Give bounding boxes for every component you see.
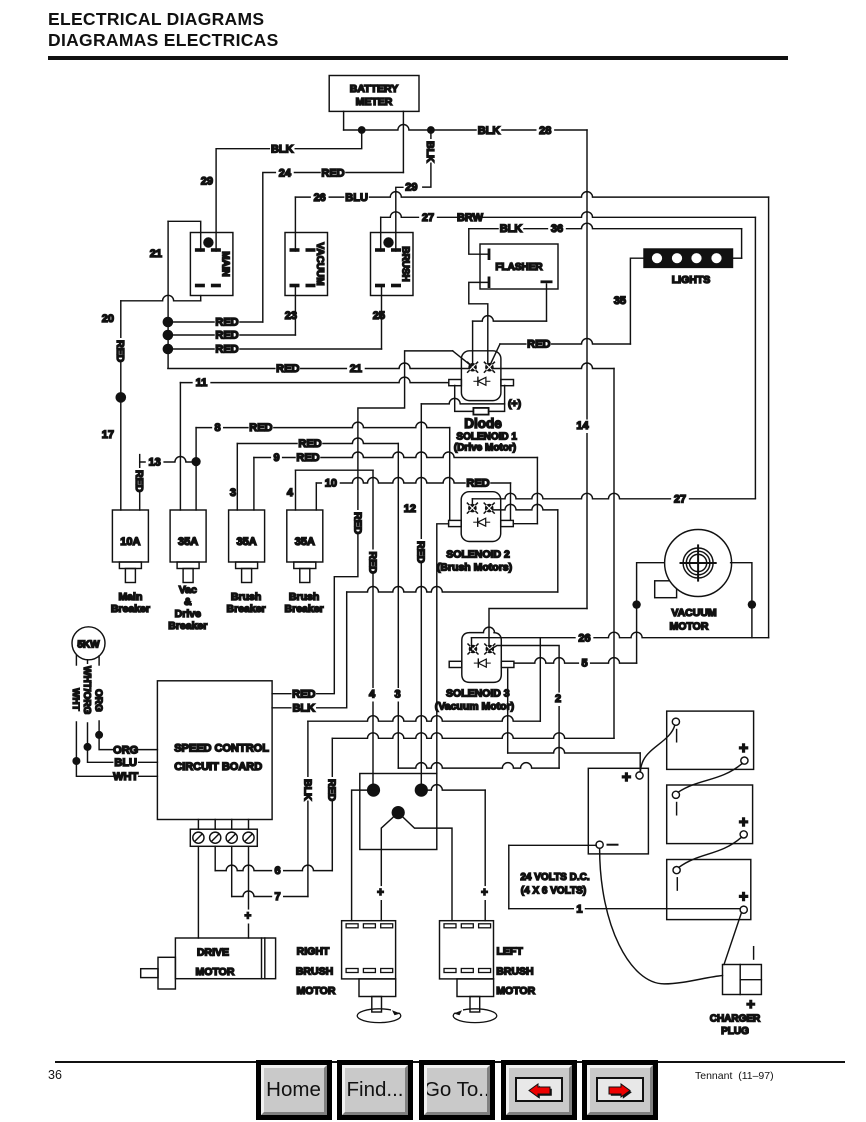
wire RED 21 to solenoid 1 — [168, 363, 469, 369]
wire strip to drive motor plus — [248, 846, 250, 938]
svg-text:27: 27 — [674, 493, 686, 505]
label RED vertical — [325, 777, 338, 801]
label 14 — [574, 420, 592, 433]
label 10 — [322, 477, 340, 490]
svg-text:RED: RED — [415, 541, 427, 564]
svg-text:Main: Main — [118, 591, 142, 603]
battery interconnect curve 3 — [679, 837, 742, 867]
wire diagonal into solenoid 1 left terminal — [453, 351, 472, 366]
svg-text:CIRCUIT BOARD: CIRCUIT BOARD — [174, 761, 262, 773]
svg-text:MOTOR: MOTOR — [670, 621, 709, 633]
label ORG — [113, 744, 137, 757]
wire 29 stub BLK drop — [423, 130, 431, 187]
svg-text:RED: RED — [296, 452, 319, 464]
svg-text:BLU: BLU — [114, 757, 137, 769]
wire 23 RED to VACUUM relay — [168, 334, 296, 336]
svg-text:(Drive Motor): (Drive Motor) — [454, 443, 516, 454]
wire 28 BLK bus — [344, 125, 587, 131]
wire 8 RED — [195, 428, 197, 510]
page number 36 — [48, 1068, 62, 1082]
label 5 — [579, 657, 590, 670]
svg-text:35A: 35A — [295, 536, 315, 548]
svg-text:Diode: Diode — [464, 416, 502, 431]
svg-text:17: 17 — [102, 429, 114, 441]
svg-text:14: 14 — [576, 420, 589, 432]
solenoid U1 drive solenoid — [461, 351, 501, 401]
label WHT/ORG vertical — [80, 664, 93, 711]
label BLK — [270, 143, 294, 156]
label 12 — [400, 503, 418, 516]
svg-text:7: 7 — [275, 891, 281, 903]
svg-text:12: 12 — [404, 503, 416, 515]
svg-text:35: 35 — [614, 295, 626, 307]
svg-text:+: + — [377, 887, 384, 899]
wire 3 jog — [398, 763, 559, 769]
svg-text:5KW: 5KW — [77, 640, 100, 651]
svg-text:BATTERY: BATTERY — [350, 83, 398, 95]
battery interconnect curve 1 — [641, 725, 675, 771]
label 2 — [553, 693, 564, 706]
title ELECTRICAL DIAGRAMS — [48, 9, 279, 51]
svg-text:WHT: WHT — [70, 688, 81, 711]
label 26 — [311, 191, 329, 204]
button back arrow — [501, 1060, 577, 1120]
svg-text:4: 4 — [369, 689, 376, 701]
svg-text:Drive: Drive — [175, 608, 201, 620]
svg-text:13: 13 — [148, 457, 160, 469]
label 1 — [574, 903, 585, 916]
svg-text:ORG: ORG — [113, 744, 138, 756]
footer Tennant (11-97) — [695, 1070, 774, 1082]
svg-text:RED: RED — [326, 779, 338, 802]
wire 21 bus — [167, 221, 169, 368]
svg-text:1: 1 — [576, 903, 582, 915]
junction block — [360, 774, 437, 850]
label 7 — [272, 891, 283, 904]
svg-text:BLK: BLK — [301, 779, 313, 801]
left brush motor — [440, 921, 494, 979]
label RED — [298, 438, 322, 451]
circuit breaker 10A — [112, 510, 148, 562]
svg-text:+: + — [622, 769, 631, 786]
node dot vacuum motor left — [632, 600, 640, 608]
wire 10 RED — [315, 483, 317, 510]
wire battery meter left lead — [343, 111, 345, 130]
label BLK vertical — [300, 777, 313, 801]
svg-text:(+): (+) — [508, 398, 521, 410]
button Home — [256, 1060, 332, 1120]
svg-text:8: 8 — [215, 422, 221, 434]
label BLK — [292, 702, 316, 715]
label 13 — [146, 456, 164, 469]
flasher box — [480, 244, 558, 289]
svg-text:ORG: ORG — [93, 689, 104, 712]
svg-text:4: 4 — [287, 487, 294, 499]
label RED — [215, 343, 239, 356]
button forward arrow — [582, 1060, 658, 1120]
label RED vertical — [113, 338, 126, 362]
battery B3 — [667, 860, 751, 920]
svg-text:RED: RED — [351, 512, 363, 535]
wire WHT/ORG from horn — [87, 660, 89, 665]
svg-text:BRUSH: BRUSH — [496, 966, 533, 978]
label BLK — [477, 125, 501, 138]
label 4 — [367, 688, 378, 701]
terminal strip — [190, 829, 257, 846]
wire flasher lower pin to solenoid 1 — [469, 282, 489, 363]
wire flasher right pin to solenoid 1 — [546, 284, 548, 321]
wire D2 to left brush motor — [421, 785, 485, 791]
speed control circuit board — [157, 681, 272, 820]
wire 2 — [507, 669, 509, 753]
svg-text:Breaker: Breaker — [168, 620, 207, 632]
svg-text:RED: RED — [292, 688, 315, 700]
wire 12 RED — [421, 398, 504, 404]
node junction dot D2 — [415, 784, 428, 797]
svg-text:35A: 35A — [178, 536, 198, 548]
svg-text:(Brush Motors): (Brush Motors) — [437, 562, 512, 574]
label RED — [215, 329, 239, 342]
svg-text:LEFT: LEFT — [497, 946, 524, 958]
relay BRUSH — [371, 233, 414, 296]
wire 11 — [179, 383, 181, 510]
svg-text:26: 26 — [578, 632, 590, 644]
svg-text:RED: RED — [321, 168, 344, 180]
label RED vertical — [365, 550, 378, 574]
node dot RED bus 2 — [163, 330, 174, 341]
relay VACUUM — [285, 233, 328, 296]
svg-text:SPEED CONTROL: SPEED CONTROL — [174, 743, 269, 755]
svg-text:RED: RED — [366, 552, 378, 575]
svg-text:SOLENOID 3: SOLENOID 3 — [446, 688, 510, 700]
label RED — [321, 167, 345, 180]
svg-text:BLK: BLK — [424, 141, 436, 163]
svg-text:26: 26 — [314, 192, 326, 204]
svg-text:RED: RED — [133, 470, 145, 493]
node dot — [84, 743, 92, 751]
svg-text:SOLENOID 2: SOLENOID 2 — [446, 549, 510, 561]
node dot wire 13 junction — [192, 457, 201, 466]
svg-text:BLK: BLK — [478, 125, 501, 137]
wire D3 to left brush motor — [398, 813, 452, 921]
svg-text:25: 25 — [373, 310, 385, 322]
wire 27 from solenoid 2 left terminal — [471, 499, 473, 506]
svg-text:24 VOLTS D.C.: 24 VOLTS D.C. — [520, 872, 589, 883]
wire 36 BLK from flasher — [469, 229, 489, 255]
svg-text:24: 24 — [279, 168, 292, 180]
footer separator line — [55, 1061, 845, 1063]
wire 27 BRW from BRUSH relay — [380, 217, 382, 251]
battery B1 — [667, 711, 754, 769]
button Go To.. — [419, 1060, 495, 1120]
label RED — [249, 422, 273, 435]
wire 25 RED to BRUSH relay — [168, 348, 382, 350]
wire ORG from horn — [98, 656, 100, 665]
battery interconnect curve 2 — [678, 763, 742, 792]
label 24 — [276, 167, 294, 180]
svg-text:RED: RED — [249, 422, 272, 434]
svg-text:BLK: BLK — [500, 223, 523, 235]
title rule — [48, 56, 788, 60]
label 27 — [671, 493, 689, 506]
svg-text:20: 20 — [102, 313, 114, 325]
label RED — [296, 452, 320, 465]
horn 5KW — [72, 627, 105, 660]
wire battery meter right lead — [402, 111, 404, 172]
label RED — [527, 338, 551, 351]
svg-text:29: 29 — [201, 176, 213, 188]
svg-text:11: 11 — [196, 377, 208, 389]
label RED vertical — [414, 539, 427, 563]
svg-text:RED: RED — [215, 330, 238, 342]
svg-text:2: 2 — [555, 693, 561, 705]
wire 1 — [509, 908, 741, 910]
vacuum motor — [655, 581, 677, 598]
label 11 — [193, 377, 211, 390]
svg-text:29: 29 — [405, 182, 417, 194]
svg-text:RED: RED — [466, 478, 489, 490]
node junction dot D3 — [392, 806, 405, 819]
wire vacuum motor right lead — [731, 563, 752, 638]
svg-text:RED: RED — [298, 438, 321, 450]
svg-text:Brush: Brush — [231, 591, 261, 603]
svg-text:RIGHT: RIGHT — [297, 946, 330, 958]
svg-text:WHT/ORG: WHT/ORG — [81, 666, 92, 715]
node dot RED bus 3 — [163, 344, 174, 355]
label RED — [215, 316, 239, 329]
node junction dot — [427, 126, 435, 134]
node dot RED bus 1 — [163, 317, 174, 328]
battery 3 to charger plug — [724, 913, 742, 965]
svg-text:BLK: BLK — [292, 703, 315, 715]
svg-text:35A: 35A — [237, 536, 257, 548]
wire RED 24 — [263, 173, 404, 323]
wire 9 RED — [253, 458, 255, 511]
svg-text:+: + — [481, 887, 488, 899]
wires board to strip — [197, 820, 199, 830]
lights bar — [644, 249, 733, 267]
wire 20/17 to main breaker — [120, 301, 122, 510]
svg-text:21: 21 — [150, 248, 162, 260]
wire solenoid 2 left tab drop — [437, 524, 449, 774]
svg-text:6: 6 — [275, 865, 281, 877]
right brush motor — [342, 921, 396, 979]
svg-text:(4 X 6 VOLTS): (4 X 6 VOLTS) — [521, 886, 586, 897]
circuit breaker 35A brush 1 — [229, 510, 265, 562]
svg-text:+: + — [739, 889, 748, 906]
wire WHT from horn — [75, 655, 77, 665]
svg-text:RED: RED — [527, 339, 550, 351]
node dot on wire 17 — [116, 392, 127, 403]
label WHT — [113, 771, 137, 784]
label BLK vertical — [423, 139, 436, 163]
svg-text:+: + — [739, 740, 748, 757]
svg-text:MOTOR: MOTOR — [196, 966, 235, 978]
label 8 — [212, 422, 223, 435]
solenoid U2 brush solenoid — [461, 492, 501, 542]
svg-text:3: 3 — [230, 487, 236, 499]
svg-text:RED: RED — [215, 317, 238, 329]
svg-text:21: 21 — [350, 363, 362, 375]
label 26 — [576, 632, 594, 645]
wire 35 lights to solenoid 1 — [630, 258, 644, 344]
svg-text:28: 28 — [539, 125, 551, 137]
svg-text:27: 27 — [422, 212, 434, 224]
label RED — [292, 688, 316, 701]
label BRW — [458, 212, 482, 225]
svg-text:VACUUM: VACUUM — [314, 242, 325, 285]
svg-text:PLUG: PLUG — [721, 1026, 749, 1037]
wire BLK speed control to solenoid 2 — [272, 592, 347, 708]
svg-text:MAIN: MAIN — [219, 251, 230, 277]
svg-text:Brush: Brush — [289, 591, 319, 603]
battery B2 — [667, 785, 753, 844]
svg-text:SOLENOID 1: SOLENOID 1 — [456, 432, 517, 443]
wire 5 — [514, 658, 636, 664]
wire 20 to MAIN contact — [121, 295, 201, 300]
label 3 — [392, 688, 403, 701]
svg-text:Vac: Vac — [179, 584, 197, 596]
label + — [242, 910, 253, 924]
label 6 — [272, 865, 283, 878]
label RED — [466, 477, 490, 490]
node dot — [95, 731, 103, 739]
label 28 — [536, 125, 554, 138]
button Find... — [337, 1060, 413, 1120]
solenoid U3 vacuum solenoid — [462, 627, 502, 682]
battery meter — [329, 76, 419, 112]
svg-text:LIGHTS: LIGHTS — [672, 274, 711, 286]
svg-text:BRUSH: BRUSH — [400, 246, 411, 282]
label BLU — [344, 191, 368, 204]
solenoid 1 jumper and fuse — [455, 386, 474, 412]
battery 4 to charger plug — [600, 848, 723, 984]
node junction dot — [358, 126, 366, 134]
svg-text:MOTOR: MOTOR — [297, 985, 336, 997]
circuit breaker 35A vac drive — [170, 510, 206, 562]
label 21 — [347, 363, 365, 376]
label BLU — [113, 757, 137, 770]
label WHT vertical — [69, 686, 82, 709]
svg-text:METER: METER — [356, 96, 393, 108]
wire 14 BLK vertical — [586, 130, 588, 609]
svg-text:9: 9 — [273, 452, 279, 464]
label BLK — [499, 223, 523, 236]
svg-text:DRIVE: DRIVE — [197, 947, 229, 959]
label ORG vertical — [92, 687, 105, 710]
svg-text:BLU: BLU — [345, 192, 368, 204]
wire RED to vacuum feed — [168, 321, 263, 323]
svg-text:MOTOR: MOTOR — [496, 985, 535, 997]
svg-text:RED: RED — [114, 340, 126, 363]
svg-text:(Vacuum Motor): (Vacuum Motor) — [435, 701, 514, 713]
label + — [479, 886, 490, 900]
svg-text:Breaker: Breaker — [111, 603, 150, 615]
svg-text:RED: RED — [276, 363, 299, 375]
wire RED speed control to solenoid 1 — [272, 351, 453, 694]
drive motor — [175, 938, 275, 979]
charger plug — [723, 965, 762, 995]
svg-text:3: 3 — [394, 689, 400, 701]
svg-text:WHT: WHT — [113, 771, 138, 783]
circuit breaker 35A brush 2 — [287, 510, 323, 562]
label RED — [276, 363, 300, 376]
svg-text:+: + — [244, 911, 251, 923]
svg-text:23: 23 — [285, 310, 297, 322]
wire 29 to MAIN coil — [168, 221, 201, 251]
label RED vertical — [350, 510, 363, 534]
node dot vacuum motor right — [748, 600, 756, 608]
node dot — [72, 757, 80, 765]
wire D3 to right brush motor plus — [381, 813, 398, 921]
wire 4 — [295, 470, 297, 510]
svg-text:BLK: BLK — [271, 144, 294, 156]
svg-text:RED: RED — [215, 344, 238, 356]
label 36 — [548, 223, 566, 236]
wire 29 stub at BRUSH relay — [396, 187, 403, 251]
wire solenoid 3 right terminal link — [489, 646, 559, 769]
wire 6 chain to solenoid 1 — [492, 363, 614, 369]
svg-text:BRW: BRW — [457, 212, 484, 224]
label RED vertical — [132, 468, 145, 492]
svg-text:FLASHER: FLASHER — [495, 262, 543, 273]
wire 13 — [139, 455, 141, 510]
label 27 — [419, 212, 437, 225]
wire 3 RED — [236, 444, 238, 511]
svg-text:+: + — [739, 814, 748, 831]
svg-text:Breaker: Breaker — [227, 603, 266, 615]
node junction dot D1 — [367, 784, 380, 797]
svg-text:10A: 10A — [120, 536, 140, 548]
wire 26 BLU from VACUUM relay — [294, 197, 296, 251]
svg-text:BRUSH: BRUSH — [296, 966, 333, 978]
wire BLK to main relay — [216, 130, 362, 251]
svg-text:&: & — [184, 596, 192, 608]
svg-text:CHARGER: CHARGER — [710, 1014, 761, 1025]
wire 26 solenoid 3 to vacuum motor — [471, 638, 473, 651]
svg-text:Breaker: Breaker — [285, 603, 324, 615]
relay MAIN — [190, 233, 233, 296]
label + — [375, 886, 386, 900]
battery B4 — [588, 768, 648, 854]
svg-text:10: 10 — [325, 478, 337, 490]
wire D1 to right brush motor — [352, 790, 374, 921]
svg-text:VACUUM: VACUUM — [671, 607, 717, 619]
wire strip to drive motor — [197, 846, 199, 938]
svg-text:5: 5 — [581, 658, 587, 670]
svg-text:36: 36 — [551, 223, 563, 235]
wire 7 chain — [231, 846, 233, 896]
svg-text:+: + — [746, 996, 755, 1013]
label 9 — [271, 452, 282, 465]
